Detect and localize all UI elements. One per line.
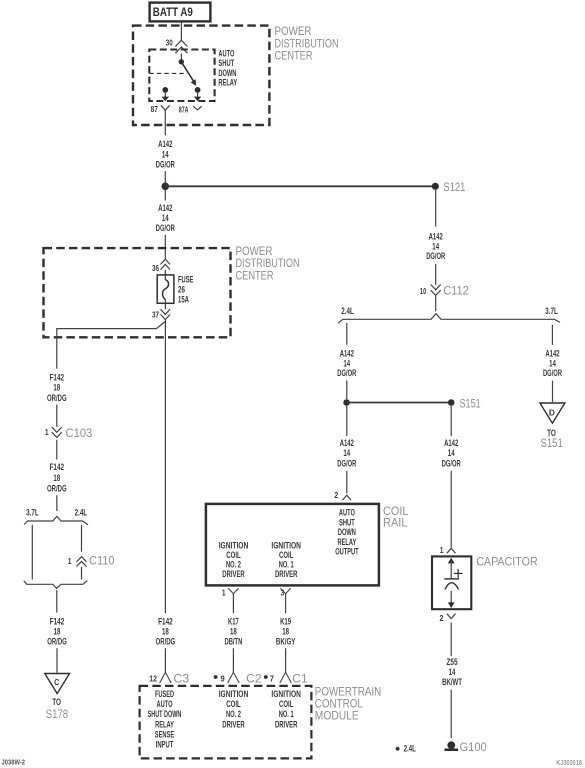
wire main down to PCM [164,320,166,613]
svg-text:OR/DG: OR/DG [47,393,67,404]
wire pin30 into relay [180,53,182,59]
wire below S151 left [346,406,348,436]
connector C1 pin 7 [264,672,308,685]
svg-text:MODULE: MODULE [315,711,359,723]
wire below split [56,590,58,613]
svg-text:DRIVER: DRIVER [222,719,244,730]
wire label F142 18 OR/DG (1) [47,373,67,404]
wire [56,405,58,427]
svg-text:2.4L: 2.4L [341,306,354,317]
svg-text:DG/OR: DG/OR [426,251,445,262]
capacitor box [432,556,471,609]
svg-text:OR/DG: OR/DG [47,484,67,495]
ground symbol C to S178 [45,674,70,721]
wire S121 down [435,190,437,227]
svg-text:BK/WT: BK/WT [442,677,462,688]
label POWER DISTRIBUTION CENTER (second) [236,246,300,283]
wire branch to left [57,321,166,368]
wire battery to relay pin 30 [180,22,182,41]
svg-text:KJ303018: KJ303018 [556,760,582,767]
engine split bracket (2.4L / 3.7L) [338,314,560,324]
svg-text:3.7L: 3.7L [545,306,558,317]
junction node [162,183,170,191]
svg-text:DRIVER: DRIVER [275,569,297,580]
wire [435,264,437,285]
svg-text:DG/OR: DG/OR [543,368,562,379]
svg-text:3.7L: 3.7L [26,508,39,519]
wire [346,381,348,400]
svg-text:RAIL: RAIL [383,517,408,529]
svg-text:J038W-2: J038W-2 [2,759,26,766]
relay coil dashed line [149,72,187,74]
svg-text:CENTER: CENTER [275,51,313,63]
wire [346,471,348,493]
svg-text:1: 1 [440,545,444,555]
note 2.4L [396,743,416,754]
wire label A142 14 DG/OR (2.4L) [337,349,356,379]
svg-text:RELAY: RELAY [218,77,237,88]
connector coil rail pin 1 [222,588,239,598]
svg-text:POWERTRAIN: POWERTRAIN [315,687,382,699]
svg-text:INPUT: INPUT [156,740,174,751]
svg-text:2.4L: 2.4L [404,743,416,754]
svg-text:7: 7 [270,673,274,683]
PCM text FUSED AUTO SHUT DOWN RELAY SENSE INPUT [148,689,182,751]
svg-text:DG/OR: DG/OR [156,159,175,170]
svg-text:DISTRIBUTION: DISTRIBUTION [236,258,300,270]
wire to C3 [164,648,166,672]
arrow from 87A to box edge [194,93,201,101]
wire 3.7L branch [31,525,33,580]
relay contact 87A [195,87,201,93]
relay switch blade [181,62,196,86]
wire into fuse [164,270,166,280]
svg-text:S178: S178 [46,709,68,721]
wire K19 to C1 [285,648,287,672]
wire label F142 18 OR/DG (3) [47,616,67,647]
wire into PDC2 [164,235,166,259]
svg-text:C2: C2 [246,673,261,685]
wire 3.7L down [551,325,553,345]
svg-text:OR/DG: OR/DG [156,637,176,648]
svg-text:2.4L: 2.4L [75,508,88,519]
power distribution center box (top) [133,26,269,125]
svg-text:14: 14 [343,448,350,459]
connector pin 36 [152,259,170,273]
svg-text:30: 30 [166,37,173,47]
capacitor element [444,558,462,608]
svg-text:2: 2 [334,490,338,500]
arrow from 87 to box edge [162,93,169,101]
svg-text:3: 3 [281,588,285,598]
svg-text:C3: C3 [173,673,189,685]
battery BATT A9 [150,3,211,22]
svg-text:10: 10 [420,286,427,296]
connector pin 87 [151,104,170,114]
powertrain control module box [140,686,312,759]
svg-text:COIL: COIL [383,506,409,518]
svg-text:18: 18 [53,473,60,484]
connector C103 pin 1 [45,427,92,440]
label COIL RAIL [383,506,409,530]
connector coil rail pin 2 [334,490,351,500]
svg-text:CONTROL: CONTROL [315,699,364,711]
svg-text:1: 1 [68,556,72,566]
svg-text:87A: 87A [179,104,189,114]
ground G100 [445,741,487,754]
svg-text:DG/OR: DG/OR [156,223,175,234]
svg-text:POWER: POWER [236,246,273,258]
splice S151 [343,398,480,410]
wire to G100 [450,690,452,739]
wire K17 to C2 [232,648,234,672]
relay box (auto shut down relay) [149,50,214,102]
svg-text:36: 36 [152,263,159,273]
ground symbol D to S151 [540,403,565,450]
svg-text:BATT A9: BATT A9 [153,5,193,19]
connector C110 pin 1 [68,555,115,567]
wire 2.4L down [346,323,348,345]
coil rail text IGNITION COIL NO.1 DRIVER [271,541,301,581]
wire below junction [164,190,166,201]
svg-text:1: 1 [45,427,49,437]
svg-text:DG/OR: DG/OR [442,459,461,470]
svg-text:DG/OR: DG/OR [337,459,356,470]
splice S121 [432,182,466,194]
svg-text:S151: S151 [541,438,563,450]
wire below S151 right [450,406,452,436]
relay contact 87 [162,87,168,93]
svg-text:12: 12 [149,673,157,683]
connector C2 pin 9 [214,672,262,685]
PCM text IGNITION COIL NO.2 DRIVER [219,689,249,730]
wire coil pin1 down [232,594,234,614]
svg-text:BK/GY: BK/GY [276,637,296,648]
wire [552,381,554,402]
wire coil pin3 down [285,594,287,614]
wire 2.4L branch upper [81,525,83,552]
wire label F142 18 OR/DG (2) [47,462,67,494]
svg-text:DG/OR: DG/OR [337,368,356,379]
wire label F142 18 OR/DG (main) [156,616,176,647]
wire 2.4L branch lower [81,567,83,580]
wire label K19 18 BK/GY [276,616,296,647]
svg-text:CAPACITOR: CAPACITOR [476,557,538,569]
wire to capacitor [450,471,452,548]
connector pin 37 [152,309,170,319]
engine split brace bottom [24,581,88,589]
wire [164,171,166,183]
wire below fuse [164,300,166,310]
connector capacitor pin 2 [440,613,456,623]
coil rail box [206,504,379,586]
svg-text:OUTPUT: OUTPUT [335,547,359,558]
wire [435,296,437,312]
svg-text:9: 9 [221,673,225,683]
svg-text:37: 37 [152,310,159,320]
connector pin 30 [166,37,188,53]
svg-text:TO: TO [52,697,61,708]
svg-text:DRIVER: DRIVER [222,569,244,580]
wire label Z55 14 BK/WT [442,657,462,688]
wire [56,440,58,460]
svg-text:S121: S121 [444,182,466,194]
wire to ground triangle C [56,648,58,672]
svg-text:DB/TN: DB/TN [225,637,243,648]
connector C3 pin 12 [149,672,189,685]
wire label A142 14 DG/OR (to capacitor) [442,438,461,469]
engine split brace top [24,516,88,524]
wire to S121 [165,185,435,187]
svg-text:1: 1 [222,588,226,598]
coil rail text IGNITION COIL NO.2 DRIVER [219,541,249,581]
svg-text:S151: S151 [460,398,481,410]
svg-text:87: 87 [151,104,158,114]
svg-text:D: D [549,408,555,418]
wire [56,495,58,511]
svg-text:G100: G100 [460,742,487,754]
connector C112 pin 10 [420,285,469,298]
svg-text:14: 14 [448,448,455,459]
wire label A142 14 DG/OR (2) [156,203,175,234]
svg-text:POWER: POWER [275,26,312,38]
wire label A142 14 DG/OR (1) [156,139,175,170]
wire relay 87 down [164,110,166,135]
svg-text:DRIVER: DRIVER [275,719,297,730]
wire label A142 14 DG/OR (to coil rail) [337,438,356,469]
connector pin 87A [179,104,202,114]
relay caption AUTO SHUT DOWN RELAY [218,49,237,89]
fuse 26 15A [157,275,193,306]
power distribution center box (second) [44,248,231,337]
svg-text:OR/DG: OR/DG [47,637,67,648]
svg-text:F142: F142 [50,462,65,473]
svg-text:15A: 15A [178,294,189,305]
wire label K17 18 DB/TN [225,616,243,647]
svg-text:CENTER: CENTER [236,271,274,283]
PCM text IGNITION COIL NO.1 DRIVER [271,689,301,730]
coil rail text AUTO SHUT DOWN RELAY OUTPUT [335,508,359,558]
label POWER DISTRIBUTION CENTER (top) [275,26,339,63]
wire label A142 14 DG/OR (3.7L) [543,349,562,379]
svg-text:C103: C103 [66,428,93,440]
svg-text:C1: C1 [292,673,307,685]
connector coil rail pin 3 [280,588,290,598]
svg-text:C110: C110 [89,555,115,567]
svg-text:C112: C112 [443,286,469,298]
relay common contact [179,59,184,64]
label POWERTRAIN CONTROL MODULE [315,687,382,723]
svg-text:2: 2 [440,613,444,623]
svg-text:C: C [54,677,59,687]
connector capacitor pin 1 [440,545,456,555]
wire below capacitor [450,623,452,657]
wire label A142 14 DG/OR (S121) [426,232,445,262]
svg-text:DISTRIBUTION: DISTRIBUTION [275,38,339,50]
